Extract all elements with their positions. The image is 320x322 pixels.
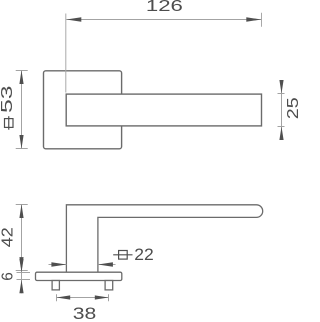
dim 42 arrow down xyxy=(19,257,23,271)
dim 126 extension line left xyxy=(65,14,67,93)
dim 25 tick top xyxy=(278,93,285,95)
svg-text:126: 126 xyxy=(146,0,183,15)
dim 25 arrow up (below) xyxy=(279,127,283,141)
dim 25 tick bottom xyxy=(278,126,285,128)
dim 22 right leader+arrow xyxy=(98,264,116,266)
dim 53 arrow down xyxy=(19,135,23,149)
svg-text:6: 6 xyxy=(0,272,16,281)
front view: lever bar xyxy=(66,94,261,126)
dim 6 tick bottom xyxy=(17,279,31,281)
dim 53 line xyxy=(21,70,23,148)
dim 38 tick left xyxy=(56,294,58,301)
dim 38 line xyxy=(57,297,109,299)
side view: screw post right xyxy=(105,281,113,290)
dim 42 tick bottom xyxy=(16,270,28,272)
dim 25 line xyxy=(281,83,283,139)
dim 6 arrow up (below) xyxy=(19,280,23,294)
dim 126 line xyxy=(66,19,261,21)
dim 53 tick bottom xyxy=(16,148,28,150)
svg-text:53: 53 xyxy=(0,86,16,114)
svg-text:42: 42 xyxy=(0,227,17,247)
side view: rosette plate xyxy=(36,272,122,280)
dim 22 square symbol xyxy=(113,251,132,260)
dim 53 tick top xyxy=(16,70,28,72)
svg-text:38: 38 xyxy=(73,304,97,322)
dim 42/6 shared line xyxy=(21,204,23,293)
dim 126 arrow right xyxy=(246,17,261,21)
dim 53 arrow up xyxy=(19,70,23,84)
dim 38 arrow left xyxy=(57,295,71,299)
dim 25 arrow down (above) xyxy=(279,80,283,94)
dim 22 left leader+arrow xyxy=(49,264,67,266)
svg-text:22: 22 xyxy=(134,245,154,264)
dim 38 tick right xyxy=(108,294,110,301)
dim 42 tick top xyxy=(16,204,28,206)
dim 38 arrow right xyxy=(95,295,109,299)
dim 53 square symbol xyxy=(5,116,14,130)
side view: screw post left xyxy=(52,281,59,290)
dim 6 arrow down (above) xyxy=(19,259,23,273)
dim 126 extension tick right xyxy=(261,13,263,27)
svg-text:25: 25 xyxy=(285,97,302,119)
side view: lever with round tip and neck xyxy=(66,205,262,272)
front view: square rosette xyxy=(44,71,122,149)
dim 42 arrow up xyxy=(19,204,23,218)
dim 126 arrow left xyxy=(66,17,81,21)
dim 6 tick top xyxy=(17,272,31,274)
